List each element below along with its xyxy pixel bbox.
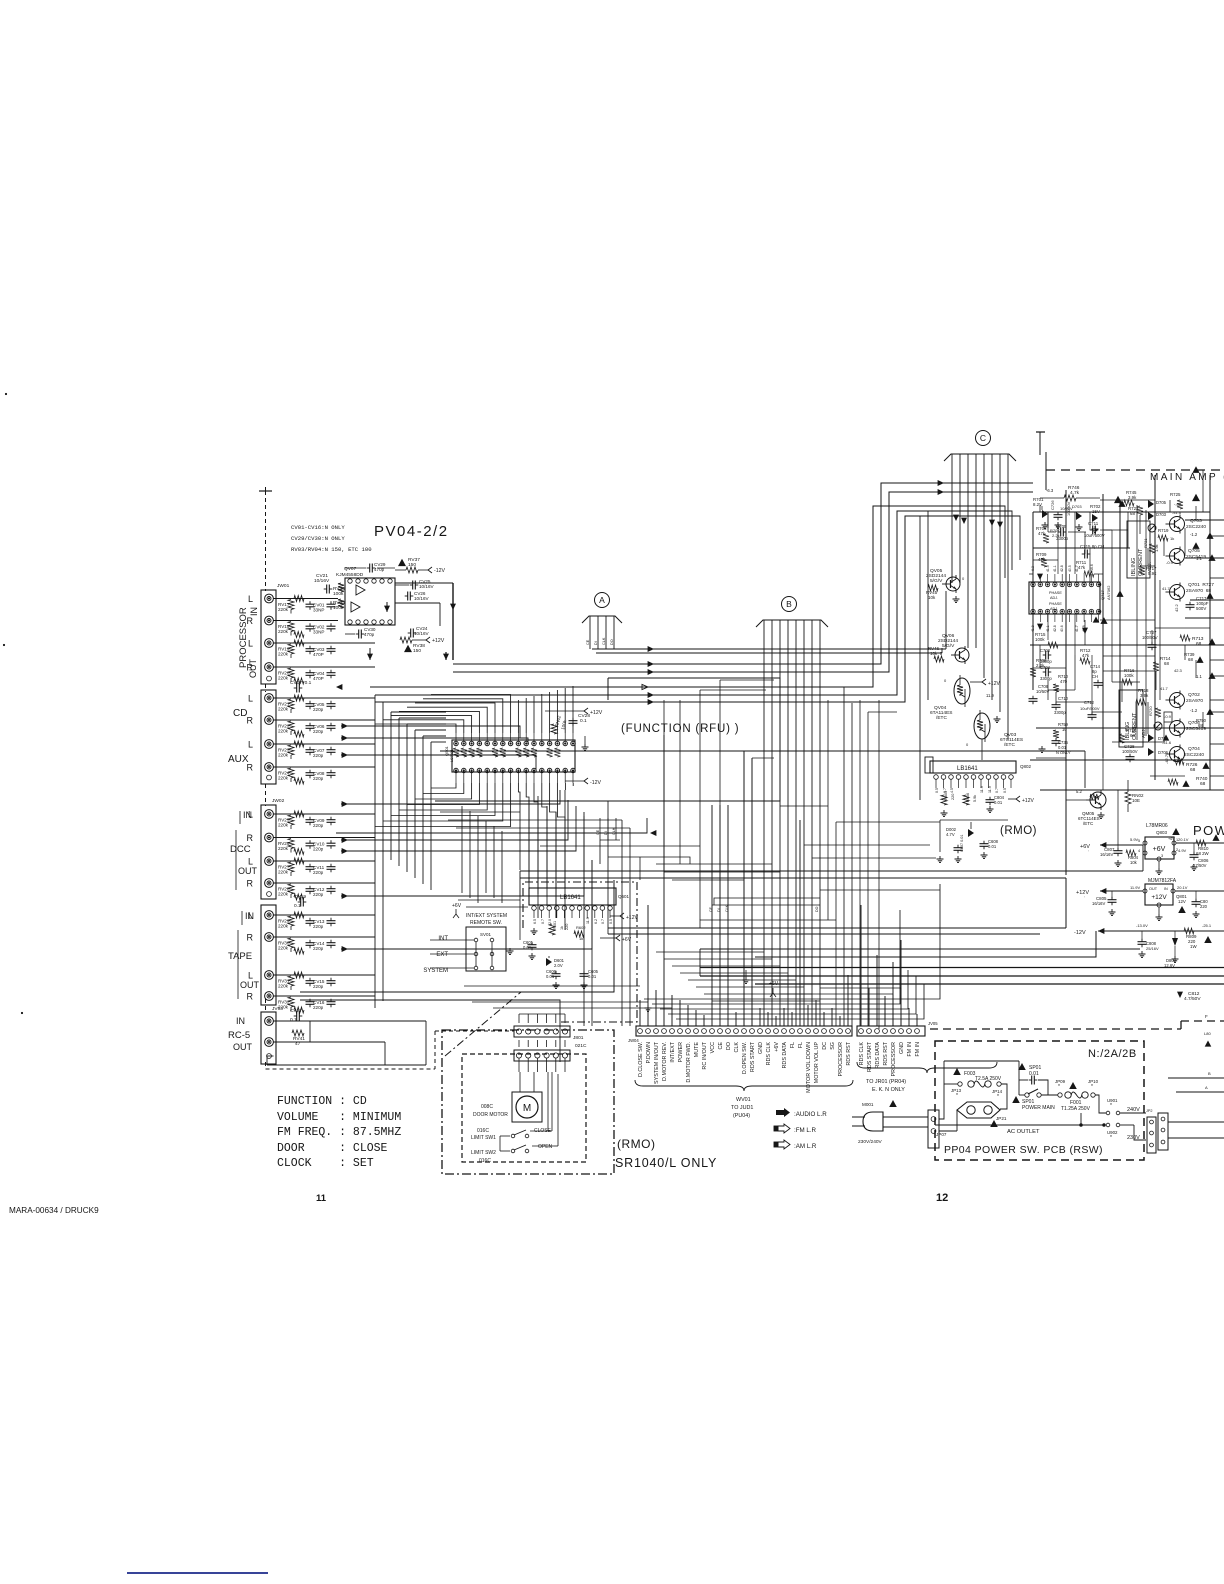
svg-text:15V: 15V	[1092, 509, 1100, 514]
svg-text:470P: 470P	[313, 652, 324, 657]
svg-text:C607 0.01: C607 0.01	[960, 834, 964, 852]
svg-text:RDS RST: RDS RST	[846, 1041, 852, 1065]
svg-text:220p: 220p	[313, 753, 324, 758]
sub-IC vertical drops	[458, 806, 528, 907]
svg-text:220: 220	[565, 924, 569, 930]
svg-text:220p: 220p	[313, 984, 324, 989]
stray margin dots	[3, 393, 23, 1014]
svg-text:68: 68	[1130, 511, 1135, 516]
rails y967-984 long power lines	[700, 949, 1224, 984]
svg-text:10: 10	[1062, 727, 1067, 732]
connector JV03 rc5	[261, 1006, 283, 1064]
svg-text:11.9: 11.9	[980, 786, 984, 793]
svg-text:5/G/V: 5/G/V	[942, 643, 955, 649]
connector A	[582, 593, 622, 650]
svg-text:33NP: 33NP	[313, 630, 325, 635]
svg-text:A: A	[1205, 1085, 1208, 1090]
svg-text:*: *	[956, 1093, 958, 1099]
capacitor CV30	[345, 627, 376, 639]
svg-text:POWER: POWER	[678, 1042, 684, 1062]
PP04 board dashed box	[935, 1041, 1144, 1160]
svg-text:220k: 220k	[278, 707, 289, 712]
amp misc verticals	[1048, 512, 1112, 758]
svg-text:6.5: 6.5	[533, 919, 537, 924]
svg-text:1k: 1k	[579, 936, 583, 941]
svg-text:2SA970: 2SA970	[1186, 698, 1203, 704]
svg-text:FM IN: FM IN	[915, 1042, 921, 1057]
svg-text:SYSTEM IN/OUT: SYSTEM IN/OUT	[654, 1041, 660, 1084]
svg-text:016C: 016C	[479, 1158, 491, 1164]
svg-text:JP09: JP09	[1055, 1079, 1066, 1084]
svg-text:/ETC: /ETC	[1083, 821, 1094, 826]
svg-text:Q702: Q702	[1188, 692, 1200, 698]
svg-text:RDS CLK: RDS CLK	[766, 1042, 772, 1066]
svg-text:230V/240V: 230V/240V	[858, 1139, 883, 1145]
svg-text:100k: 100k	[560, 719, 568, 730]
resistors R714 R739	[1153, 652, 1204, 673]
cap C717	[1174, 596, 1209, 612]
capacitor CV25	[395, 579, 434, 590]
amp core horizontals	[1103, 656, 1164, 742]
svg-text:OUT: OUT	[1149, 887, 1158, 891]
left feed wires into amp	[938, 475, 946, 649]
svg-text:0.1: 0.1	[290, 1017, 297, 1023]
svg-text:IN: IN	[243, 810, 252, 820]
IC pin wires up	[375, 686, 573, 733]
riser cross horizontals	[648, 864, 836, 1002]
function minus12 arrow	[565, 736, 601, 786]
svg-text:INT/EXT SYSTEM: INT/EXT SYSTEM	[466, 913, 507, 919]
input network RV25/CV09	[274, 811, 376, 829]
svg-text:R719: R719	[1158, 528, 1169, 533]
svg-text:1.9k: 1.9k	[1154, 544, 1159, 552]
legend audio arrows	[774, 1108, 827, 1150]
title PV04-2/2	[374, 523, 449, 540]
svg-text:*: *	[997, 1094, 999, 1100]
svg-text:33NP: 33NP	[313, 608, 325, 613]
svg-text:100/50V: 100/50V	[1122, 749, 1138, 754]
svg-text:DOOR MOTOR: DOOR MOTOR	[473, 1112, 508, 1118]
svg-text:JW02: JW02	[272, 798, 285, 804]
label TAPE IN OUT	[228, 911, 260, 999]
svg-text:12.6V: 12.6V	[1164, 963, 1175, 968]
svg-text:20.1V: 20.1V	[1177, 885, 1188, 890]
svg-text:4: 4	[1138, 849, 1140, 853]
svg-text:D706: D706	[1158, 750, 1169, 755]
svg-text:MUTE: MUTE	[694, 1042, 700, 1058]
motor wires	[500, 1072, 558, 1151]
resistor RN42	[551, 715, 568, 734]
amp rails	[1030, 475, 1224, 875]
svg-text:CLK: CLK	[734, 1042, 740, 1053]
svg-text:12V: 12V	[1178, 899, 1186, 904]
svg-text:220p: 220p	[313, 892, 324, 897]
bus arrows	[336, 480, 944, 705]
label CD	[233, 708, 247, 719]
resistor R715	[1035, 632, 1058, 648]
svg-text:100k: 100k	[1124, 673, 1134, 678]
svg-text:220p: 220p	[313, 823, 324, 828]
svg-text:220p: 220p	[313, 946, 324, 951]
IC LB1641 Q802	[925, 757, 1032, 793]
svg-text:CH: CH	[1092, 674, 1098, 679]
svg-text:42.8: 42.8	[1053, 625, 1057, 632]
input network RV28/CV12	[274, 883, 376, 900]
brace WV01	[635, 1080, 853, 1119]
mains plug M001	[852, 1100, 928, 1145]
right edge stubs	[1168, 1031, 1224, 1092]
svg-text:CV01-CV16:N ONLY: CV01-CV16:N ONLY	[291, 524, 345, 531]
svg-text:ADJ.: ADJ.	[1050, 607, 1058, 611]
svg-text:41.8: 41.8	[1031, 625, 1035, 632]
zener R702	[1090, 504, 1101, 532]
dashed net to next page	[1036, 432, 1224, 490]
svg-text:16/16V: 16/16V	[1100, 852, 1113, 857]
transistor QM05	[1066, 789, 1106, 826]
svg-text:D.MOTOR FWD.: D.MOTOR FWD.	[686, 1042, 692, 1083]
svg-text:FM IN: FM IN	[907, 1042, 913, 1057]
svg-text:470: 470	[1060, 679, 1068, 684]
resistor R709	[1036, 552, 1047, 567]
input network RV23/CV07	[274, 741, 376, 759]
label SR1040/L ONLY	[615, 1156, 717, 1170]
svg-text:-42.7: -42.7	[1164, 754, 1169, 764]
voltage selector	[1146, 1041, 1224, 1153]
svg-text:VCC: VCC	[710, 1042, 716, 1053]
svg-text:RDS START: RDS START	[867, 1041, 873, 1072]
svg-text::FM L.R: :FM L.R	[794, 1127, 817, 1134]
resistor RV41	[292, 1030, 305, 1047]
svg-text:GND: GND	[758, 1042, 764, 1054]
svg-text:68: 68	[1130, 733, 1135, 738]
svg-text:2SC2240: 2SC2240	[1184, 752, 1204, 758]
svg-text:IBLING: IBLING	[1131, 558, 1137, 576]
svg-text:2SA970 68: 2SA970 68	[1186, 588, 1211, 594]
svg-text:RV03/RV04:N 150, ETC 100: RV03/RV04:N 150, ETC 100	[291, 546, 372, 553]
svg-text:41.7: 41.7	[1162, 586, 1171, 591]
svg-text:0.7: 0.7	[995, 788, 999, 793]
svg-text:+6V: +6V	[774, 1042, 780, 1052]
svg-text:J801: J801	[573, 1035, 584, 1041]
svg-text:E. K. N ONLY: E. K. N ONLY	[872, 1087, 905, 1093]
amp extra verticals	[1040, 470, 1210, 845]
svg-text:68: 68	[1196, 641, 1202, 647]
C bundle down arrows	[953, 515, 1003, 528]
amp warning triangles	[1100, 466, 1213, 624]
svg-text:R803: R803	[944, 791, 948, 800]
svg-text:220k: 220k	[278, 607, 289, 612]
svg-text:150: 150	[413, 648, 421, 654]
svg-text:41.7: 41.7	[1075, 565, 1079, 572]
svg-text:OUT: OUT	[233, 1042, 253, 1052]
svg-text:*: *	[1110, 1135, 1112, 1141]
svg-text:5.9k: 5.9k	[973, 795, 977, 802]
capacitor CV24	[408, 626, 430, 638]
input network RV18/CV02	[274, 621, 339, 638]
strip pin labels	[638, 1041, 921, 1093]
idling current text bottom	[1125, 712, 1146, 740]
idling adj box top	[1127, 521, 1150, 578]
connector J801 strip2	[514, 1050, 570, 1061]
svg-text:JW01: JW01	[277, 583, 290, 589]
svg-text:0.1: 0.1	[294, 903, 301, 909]
svg-text:470p: 470p	[364, 632, 375, 637]
svg-text:AN7062: AN7062	[1106, 585, 1111, 600]
connector JW04 strip	[628, 1026, 852, 1043]
svg-text:EXT: EXT	[436, 952, 448, 958]
svg-text:N:/2A/2B: N:/2A/2B	[1088, 1048, 1137, 1060]
svg-text:AC OUTLET: AC OUTLET	[1007, 1129, 1040, 1135]
label MAIN AMP	[1150, 472, 1224, 483]
resistor R726 R740	[1168, 759, 1210, 787]
svg-text:R: R	[247, 833, 254, 843]
transistor Q705	[1166, 542, 1207, 565]
svg-text:*: *	[1091, 1084, 1093, 1090]
R710 C710	[1052, 674, 1069, 715]
svg-text:OPEN: OPEN	[538, 1144, 553, 1150]
svg-text:L: L	[248, 694, 253, 704]
svg-text:D.CLOSE SW.: D.CLOSE SW.	[638, 1042, 644, 1077]
svg-text:INT/EXT: INT/EXT	[670, 1041, 676, 1062]
svg-text:L: L	[248, 594, 253, 604]
svg-text:C710: C710	[1058, 696, 1069, 701]
resistor R708 C708	[1029, 658, 1050, 704]
svg-text:+12V: +12V	[988, 681, 1000, 687]
svg-text:R721: R721	[1143, 538, 1148, 548]
resistor RV38	[400, 637, 445, 654]
svg-text:11.9V: 11.9V	[1130, 885, 1140, 890]
svg-text:10k: 10k	[928, 595, 936, 600]
minus12V rail	[1074, 923, 1224, 968]
B to LB1641 rungs	[804, 845, 940, 890]
svg-text:U902: U902	[1107, 1130, 1118, 1135]
page number 11	[316, 1193, 327, 1204]
U901 U902 taps	[935, 1098, 1146, 1141]
svg-text:220k: 220k	[278, 629, 289, 634]
svg-text:SR1040/L ONLY: SR1040/L ONLY	[615, 1156, 717, 1170]
svg-text:B: B	[1208, 1071, 1211, 1076]
svg-text:B: B	[786, 599, 792, 609]
svg-text:JP21: JP21	[996, 1116, 1007, 1121]
svg-text:0: 0	[966, 742, 969, 747]
svg-text:68: 68	[1164, 661, 1169, 666]
svg-text:4.9V: 4.9V	[1178, 848, 1187, 853]
svg-text:1W: 1W	[1190, 944, 1197, 949]
doc number	[9, 1206, 99, 1215]
function CE DI CLK stubs	[596, 818, 616, 840]
cap C812	[1177, 991, 1201, 1002]
svg-text:CE: CE	[709, 906, 713, 912]
svg-text:GND: GND	[899, 1042, 905, 1054]
fuse F003	[944, 1061, 1019, 1109]
trimmer R720	[1148, 706, 1214, 728]
svg-text:100/50V: 100/50V	[1142, 635, 1158, 640]
transistor Q702	[1160, 672, 1216, 709]
svg-text:220p: 220p	[313, 707, 324, 712]
long feed verticals left of amp	[920, 511, 928, 800]
svg-text:PV04-2/2: PV04-2/2	[374, 523, 449, 540]
connector C	[944, 431, 1016, 741]
svg-text::AUDIO L.R: :AUDIO L.R	[794, 1111, 827, 1118]
svg-text:40.5: 40.5	[1068, 565, 1072, 572]
svg-text:68: 68	[1198, 723, 1203, 728]
resistor RV37	[395, 557, 445, 574]
IC LB1641 Q601	[529, 888, 630, 934]
stacked feeder wires above strip	[644, 884, 940, 1019]
input network RV26/CV10	[274, 838, 376, 855]
svg-text:41.1: 41.1	[1053, 565, 1057, 572]
svg-text:CD: CD	[233, 708, 247, 719]
svg-text:OUT: OUT	[248, 659, 258, 679]
svg-text:-12V: -12V	[434, 568, 445, 574]
svg-text:CV19: CV19	[294, 894, 306, 900]
svg-text:10/16V: 10/16V	[419, 584, 434, 589]
door motor M	[473, 1072, 542, 1122]
svg-text:8.2V: 8.2V	[1033, 502, 1042, 507]
svg-text:11.9: 11.9	[986, 693, 995, 698]
resistors R745 R723 R725	[1114, 490, 1200, 516]
svg-text:R: R	[247, 992, 254, 1002]
B riser cross links	[656, 700, 905, 1026]
svg-text:LIMIT SW2: LIMIT SW2	[471, 1150, 496, 1156]
svg-text:D.OPEN SW.: D.OPEN SW.	[742, 1042, 748, 1074]
svg-text:220k: 220k	[278, 776, 289, 781]
remote switch SV01	[423, 903, 513, 974]
svg-text:JP07: JP07	[936, 1132, 947, 1137]
svg-text:M: M	[523, 1103, 531, 1114]
regulator +6V L78MR06	[1080, 823, 1224, 874]
svg-text:220k: 220k	[278, 984, 289, 989]
mid mesh extra horizontals	[440, 812, 700, 1008]
svg-text:220k: 220k	[278, 870, 289, 875]
svg-text:/ETC: /ETC	[936, 715, 947, 721]
notes	[291, 524, 372, 553]
svg-text:220k: 220k	[278, 652, 289, 657]
nested loop wires around function IC	[399, 712, 446, 736]
svg-text:C: C	[980, 433, 986, 443]
svg-text:L: L	[248, 857, 253, 867]
footer blue line	[127, 1572, 268, 1574]
svg-text:0.7: 0.7	[601, 919, 605, 924]
label RC-5	[228, 1016, 253, 1052]
svg-text:PROCESSOR: PROCESSOR	[891, 1042, 897, 1077]
label PROCESSOR OUT IN	[238, 607, 259, 678]
input network RV30/CV14	[274, 937, 376, 954]
svg-text:4.7V: 4.7V	[946, 832, 955, 837]
svg-text:3: 3	[1161, 854, 1163, 858]
mid vertical risers	[640, 680, 879, 1029]
svg-text:REMOTE SW.: REMOTE SW.	[470, 920, 502, 926]
svg-text:11.9: 11.9	[988, 786, 992, 793]
svg-text:M001: M001	[862, 1102, 874, 1107]
caps C703 C704	[1040, 648, 1052, 681]
svg-text:CV17 0.1: CV17 0.1	[290, 680, 312, 686]
svg-text:Q803: Q803	[1156, 830, 1168, 835]
svg-text:3.9k: 3.9k	[1140, 693, 1149, 698]
svg-text:WV01: WV01	[736, 1097, 751, 1103]
svg-text:POW: POW	[1193, 823, 1224, 838]
capacitor CV29	[345, 562, 395, 573]
svg-text:DOOR : CLOSE: DOOR : CLOSE	[277, 1142, 388, 1155]
svg-text:DO: DO	[815, 906, 819, 912]
op-amp QV07 KJM4558DD	[336, 566, 395, 625]
input network RV22/CV06	[274, 720, 376, 737]
QV07 wires	[367, 583, 456, 660]
svg-text:DCC: DCC	[230, 844, 251, 855]
input network RV31/CV15	[274, 972, 376, 990]
svg-text:220k: 220k	[278, 946, 289, 951]
svg-text:QV07: QV07	[344, 566, 357, 572]
resistor R705 R707	[1036, 526, 1060, 543]
function block outline	[435, 678, 780, 801]
svg-text:D.MOTOR REV.: D.MOTOR REV.	[662, 1042, 668, 1081]
transistor Q706	[1164, 714, 1206, 738]
connector JV02	[261, 690, 276, 784]
cap SP01	[1018, 1061, 1048, 1095]
cap C712	[1080, 700, 1100, 720]
coupling caps between groups	[290, 680, 312, 1023]
svg-text:0.01: 0.01	[994, 800, 1003, 805]
resistor R746	[1040, 485, 1100, 501]
svg-text:RDS CLK: RDS CLK	[859, 1042, 865, 1066]
svg-text:+12V: +12V	[590, 710, 603, 716]
svg-text:CK27: CK27	[290, 1008, 302, 1014]
svg-text:DC: DC	[822, 1042, 828, 1050]
svg-text:68: 68	[1188, 657, 1193, 662]
limit switch SW1	[471, 1128, 552, 1141]
svg-text:MOTOR VOL.DOWN: MOTOR VOL.DOWN	[806, 1042, 812, 1093]
trimmer top	[1148, 524, 1156, 532]
IC pin wires down	[375, 783, 573, 930]
svg-text:JP2: JP2	[1146, 1109, 1153, 1113]
trimmer bottom	[1154, 722, 1162, 730]
svg-text:RC IN/OUT: RC IN/OUT	[702, 1041, 708, 1069]
svg-text:0.5: 0.5	[935, 788, 939, 793]
svg-text:+12V: +12V	[432, 638, 445, 644]
transistor QV06	[928, 633, 969, 664]
svg-text:D703: D703	[1156, 512, 1167, 517]
resistor R718	[1136, 688, 1149, 705]
svg-text:3300p: 3300p	[1054, 710, 1066, 715]
capacitor CV28	[545, 708, 603, 726]
mesh horizontals mid	[300, 723, 656, 1062]
svg-text:JV05: JV05	[928, 1021, 938, 1026]
svg-text:021C: 021C	[575, 1043, 587, 1049]
resistor R721	[1143, 538, 1159, 553]
svg-text:-25.1: -25.1	[1202, 923, 1212, 928]
svg-text:RDS RST: RDS RST	[883, 1041, 889, 1065]
rails y928/934	[608, 878, 1066, 934]
svg-text:*: *	[1110, 1103, 1112, 1109]
resistor R716	[1122, 668, 1135, 685]
svg-text:ADJ.: ADJ.	[1141, 728, 1146, 738]
resistor R711	[1076, 560, 1103, 577]
svg-text:41.7: 41.7	[1160, 686, 1169, 691]
settings table	[277, 1095, 401, 1170]
svg-text:R602: R602	[576, 925, 586, 930]
svg-text:PP04 POWER SW. PCB (RSW): PP04 POWER SW. PCB (RSW)	[944, 1144, 1103, 1156]
svg-text:1.1: 1.1	[1196, 556, 1202, 561]
caps C705 C711 C715	[1048, 521, 1112, 559]
svg-text:RDS DATA: RDS DATA	[782, 1042, 788, 1069]
svg-text:R806: R806	[966, 793, 970, 802]
label POWER	[1193, 823, 1224, 838]
svg-text:47k: 47k	[1082, 653, 1090, 658]
transistors QV04 QV03	[930, 675, 1023, 760]
input network RV32/CV16	[274, 996, 376, 1013]
svg-text:25/16V: 25/16V	[1146, 946, 1159, 951]
svg-text:220k: 220k	[278, 729, 289, 734]
